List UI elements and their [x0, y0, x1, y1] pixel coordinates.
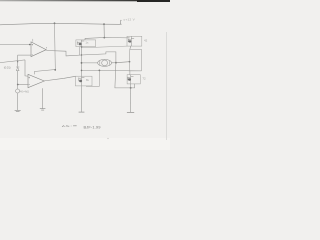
svg-text:42: 42	[144, 38, 148, 42]
svg-text:(0.01): (0.01)	[4, 65, 11, 69]
svg-text:40÷4kΩ: 40÷4kΩ	[20, 90, 29, 94]
svg-text:BJF-1.99: BJF-1.99	[84, 124, 102, 129]
svg-text:72: 72	[142, 76, 146, 80]
svg-text:o+12 V: o+12 V	[124, 18, 136, 22]
